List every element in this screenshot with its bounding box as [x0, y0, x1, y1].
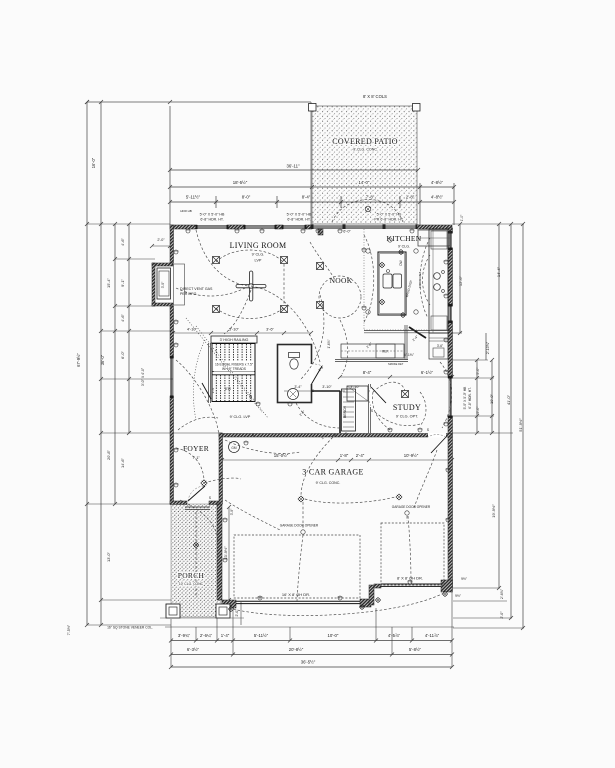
- svg-text:S: S: [345, 432, 347, 436]
- svg-text:8' X 8' OH DR.: 8' X 8' OH DR.: [397, 576, 423, 581]
- svg-text:4'-5⅞": 4'-5⅞": [388, 633, 401, 638]
- svg-text:6'-8" HDR. HT.: 6'-8" HDR. HT.: [200, 218, 224, 222]
- svg-text:67'-9½": 67'-9½": [76, 353, 81, 367]
- svg-text:2'-8": 2'-8": [366, 341, 374, 349]
- svg-text:13'-0": 13'-0": [106, 551, 111, 562]
- svg-text:8'-4": 8'-4": [363, 370, 372, 375]
- svg-text:9'-1": 9'-1": [120, 279, 125, 287]
- svg-text:16'-0": 16'-0": [91, 157, 96, 168]
- svg-text:36'-11": 36'-11": [286, 164, 299, 169]
- svg-text:5'-0": 5'-0": [476, 367, 480, 375]
- svg-text:5'-8½": 5'-8½": [409, 647, 422, 652]
- svg-text:1'-6⅜": 1'-6⅜": [327, 339, 331, 348]
- svg-text:6'-8" HDR. HT.: 6'-8" HDR. HT.: [287, 218, 311, 222]
- svg-text:BENCH: BENCH: [343, 406, 347, 418]
- svg-text:41'-0": 41'-0": [506, 394, 511, 405]
- svg-text:6'-0": 6'-0": [120, 351, 125, 359]
- svg-text:6'-3½": 6'-3½": [187, 647, 200, 652]
- svg-text:51'-9½": 51'-9½": [518, 418, 523, 432]
- svg-text:S: S: [209, 496, 211, 500]
- svg-text:20'-8": 20'-8": [106, 449, 111, 460]
- svg-text:NOOK: NOOK: [330, 276, 353, 285]
- svg-text:2'-0": 2'-0": [157, 238, 165, 242]
- svg-text:14'-0": 14'-0": [359, 180, 370, 185]
- svg-text:KITCHEN: KITCHEN: [386, 234, 421, 243]
- svg-text:16' X 8' OH DR.: 16' X 8' OH DR.: [282, 592, 310, 597]
- svg-text:3'-10": 3'-10": [322, 385, 332, 389]
- svg-text:16 EQUAL RISERS x 7.5": 16 EQUAL RISERS x 7.5": [215, 363, 254, 367]
- svg-text:SMOKE DET: SMOKE DET: [388, 362, 404, 366]
- svg-text:10'-0": 10'-0": [489, 393, 494, 404]
- svg-text:LVP: LVP: [255, 259, 262, 263]
- svg-text:PR 6'-8" HDR. HT.: PR 6'-8" HDR. HT.: [374, 218, 404, 222]
- svg-text:2'-4": 2'-4": [412, 334, 420, 342]
- svg-text:3'-0" X 4'-0": 3'-0" X 4'-0": [141, 367, 145, 386]
- svg-text:3'-6": 3'-6": [266, 327, 274, 332]
- svg-text:2'-4": 2'-4": [356, 453, 365, 458]
- svg-text:1'-4": 1'-4": [221, 633, 230, 638]
- svg-text:8'-0": 8'-0": [242, 195, 251, 200]
- svg-text:9' CLG. CONC.: 9' CLG. CONC.: [316, 481, 341, 485]
- svg-text:13'-9½": 13'-9½": [223, 546, 228, 560]
- svg-text:10'-9½": 10'-9½": [404, 453, 419, 458]
- svg-text:1'-0": 1'-0": [460, 214, 464, 222]
- svg-text:2'-10⅜": 2'-10⅜": [486, 341, 490, 354]
- svg-text:4'-6": 4'-6": [120, 238, 125, 246]
- svg-text:3'-4": 3'-4": [294, 385, 302, 389]
- svg-text:5'-0" X 5'-0" HB: 5'-0" X 5'-0" HB: [287, 213, 312, 217]
- svg-text:10' CLG. CONC: 10' CLG. CONC: [179, 582, 204, 586]
- svg-text:2'-6⅜": 2'-6⅜": [500, 588, 504, 599]
- svg-text:8'10: 8'10: [225, 387, 231, 391]
- svg-text:3'-0": 3'-0": [161, 281, 165, 288]
- svg-text:4'-11⅞": 4'-11⅞": [425, 633, 440, 638]
- svg-text:5'-11½": 5'-11½": [254, 633, 269, 638]
- svg-text:20'-8½": 20'-8½": [289, 647, 304, 652]
- svg-text:15'-4": 15'-4": [106, 277, 111, 288]
- svg-text:9½": 9½": [455, 594, 462, 598]
- svg-text:9' CLG.: 9' CLG.: [252, 253, 265, 257]
- svg-text:7'-1": 7'-1": [192, 456, 200, 460]
- svg-text:18'-5½": 18'-5½": [233, 180, 248, 185]
- svg-text:8'-4": 8'-4": [302, 195, 311, 200]
- svg-text:COVERED PATIO: COVERED PATIO: [332, 137, 398, 146]
- svg-text:3' HIGH RAILING: 3' HIGH RAILING: [220, 338, 249, 342]
- svg-text:7'-8": 7'-8": [366, 195, 375, 200]
- svg-text:7'-5½": 7'-5½": [67, 624, 71, 635]
- svg-text:S: S: [427, 428, 429, 432]
- svg-text:REF.: REF.: [382, 350, 389, 354]
- svg-text:5'-11½": 5'-11½": [186, 195, 201, 200]
- svg-text:15'-0½": 15'-0½": [274, 453, 289, 458]
- svg-text:36'-5½": 36'-5½": [301, 660, 316, 665]
- svg-text:5'-0": 5'-0": [476, 406, 480, 414]
- svg-text:PER MFG.: PER MFG.: [180, 292, 197, 296]
- svg-text:3'-6": 3'-6": [437, 344, 443, 348]
- svg-text:S: S: [371, 409, 373, 413]
- svg-text:6'-0": 6'-0": [343, 230, 351, 234]
- svg-text:2'-8": 2'-8": [299, 410, 306, 417]
- svg-text:GM: GM: [231, 446, 236, 450]
- svg-text:LIVING ROOM: LIVING ROOM: [230, 241, 287, 250]
- svg-text:W/ 10" TREADS: W/ 10" TREADS: [222, 367, 247, 371]
- svg-text:5'-10": 5'-10": [229, 327, 240, 332]
- svg-text:2'-6¼": 2'-6¼": [200, 633, 213, 638]
- svg-text:36'-0": 36'-0": [100, 354, 105, 365]
- svg-text:4'-8½": 4'-8½": [431, 195, 444, 200]
- svg-text:8' X 8' COLS: 8' X 8' COLS: [363, 94, 387, 99]
- svg-text:3'-9": 3'-9": [230, 508, 234, 515]
- svg-text:DW: DW: [399, 260, 403, 265]
- svg-text:6'-1½": 6'-1½": [421, 370, 434, 375]
- svg-text:16" SQ STONE VENEER COL.: 16" SQ STONE VENEER COL.: [107, 626, 153, 630]
- svg-text:-9' CLG. CONC.: -9' CLG. CONC.: [352, 148, 378, 152]
- svg-text:9½": 9½": [461, 577, 468, 581]
- svg-text:2'-0": 2'-0": [500, 611, 504, 619]
- svg-text:PORCH: PORCH: [178, 571, 205, 580]
- svg-text:S: S: [252, 433, 254, 437]
- svg-text:19'-9½": 19'-9½": [491, 504, 496, 518]
- svg-text:4'-6": 4'-6": [120, 314, 125, 322]
- svg-text:HDR HB: HDR HB: [180, 209, 192, 213]
- svg-text:2'-4": 2'-4": [211, 387, 215, 393]
- svg-text:1'-8": 1'-8": [340, 453, 349, 458]
- svg-text:6'-10": 6'-10": [249, 394, 253, 402]
- svg-text:12'-6": 12'-6": [458, 275, 463, 286]
- svg-text:2'-8": 2'-8": [406, 195, 415, 200]
- svg-text:9' CLG. LVP: 9' CLG. LVP: [230, 415, 251, 419]
- svg-text:9' CLG.: 9' CLG.: [398, 245, 410, 249]
- svg-text:14'-6": 14'-6": [120, 457, 125, 468]
- svg-text:14'-4": 14'-4": [496, 266, 501, 277]
- svg-text:GARAGE DOOR OPENER: GARAGE DOOR OPENER: [280, 524, 319, 528]
- svg-text:6'-8" HDR. HT.: 6'-8" HDR. HT.: [468, 387, 472, 408]
- svg-text:6'-1⅜": 6'-1⅜": [404, 353, 415, 357]
- svg-text:5'-0" X 5'-0" HB: 5'-0" X 5'-0" HB: [200, 213, 225, 217]
- svg-text:4'-8½": 4'-8½": [431, 180, 444, 185]
- svg-text:GARAGE DOOR OPENER: GARAGE DOOR OPENER: [392, 505, 431, 509]
- svg-text:3'-9¾": 3'-9¾": [178, 633, 191, 638]
- svg-text:3 CAR GARAGE: 3 CAR GARAGE: [302, 468, 363, 477]
- svg-text:9' CLG. OPT.: 9' CLG. OPT.: [396, 415, 418, 419]
- svg-text:S: S: [312, 389, 314, 393]
- svg-text:DIRECT VENT GAS: DIRECT VENT GAS: [180, 287, 213, 291]
- svg-text:STUDY: STUDY: [393, 403, 421, 412]
- svg-text:10'-0": 10'-0": [328, 633, 339, 638]
- svg-text:5'-0" X 5'-0" HB: 5'-0" X 5'-0" HB: [463, 386, 467, 409]
- svg-text:FOYER: FOYER: [183, 444, 209, 453]
- svg-text:4'-10": 4'-10": [187, 327, 198, 332]
